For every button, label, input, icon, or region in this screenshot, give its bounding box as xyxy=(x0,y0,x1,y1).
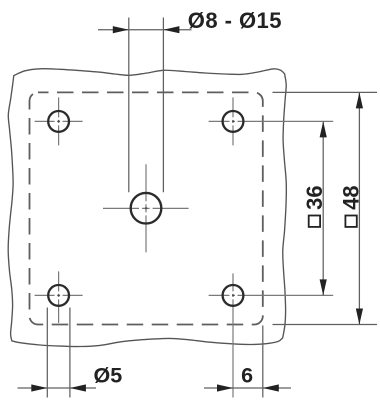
svg-text:36: 36 xyxy=(302,185,327,209)
dim Ø5 extension line left xyxy=(46,308,48,398)
dim 48 arrow bottom xyxy=(356,309,363,325)
hole bottom-right circle xyxy=(223,285,244,306)
center hole middle dot xyxy=(145,207,147,209)
center hole crosshair horizontal xyxy=(103,207,189,209)
dim 48 dimension line xyxy=(358,92,360,324)
panel outline (wavy broken edges) xyxy=(8,69,286,347)
hole top-right middle dot xyxy=(232,120,234,122)
dim 36 square symbol xyxy=(309,216,320,227)
hole top-right crosshair vertical xyxy=(232,97,234,145)
dim 6 arrow left xyxy=(217,384,233,391)
hole bottom-left middle dot xyxy=(58,294,60,296)
dim Ø8-Ø15 dimension line xyxy=(98,29,192,31)
hole bottom-left crosshair horizontal xyxy=(35,294,83,296)
svg-text:48: 48 xyxy=(338,185,363,209)
dim 6 arrow right xyxy=(263,384,279,391)
center hole circle xyxy=(131,193,162,224)
dim Ø5 dimension line xyxy=(18,387,97,389)
hole bottom-right crosshair vertical (extends to dim 6) xyxy=(232,273,234,397)
dim 36 arrow bottom xyxy=(320,279,327,295)
hole bottom-left circle xyxy=(48,285,69,306)
hole bottom-right middle dot xyxy=(232,294,234,296)
dim Ø8-Ø15 extension line right xyxy=(162,18,164,193)
dim 36 arrow top xyxy=(320,121,327,137)
dim Ø8-Ø15 arrow left xyxy=(113,26,129,33)
dim Ø5 arrow left xyxy=(31,384,47,391)
svg-text:6: 6 xyxy=(241,364,253,388)
hole top-left crosshair vertical xyxy=(58,97,60,145)
dim 36 dimension line xyxy=(322,121,324,295)
dim Ø5 extension line right xyxy=(69,308,71,398)
hole top-right circle xyxy=(223,111,244,132)
svg-text:Ø8 - Ø15: Ø8 - Ø15 xyxy=(188,8,282,33)
hole bottom-left crosshair vertical xyxy=(58,271,60,323)
hole bottom-right crosshair horizontal (extends to dim 36) xyxy=(209,294,334,296)
dim 48 square symbol xyxy=(345,216,356,227)
dim 48 extension line top xyxy=(273,91,378,93)
hole top-left middle dot xyxy=(58,120,60,122)
hole top-right crosshair horizontal (extends to dim 36) xyxy=(209,120,334,122)
dim Ø8-Ø15 arrow right xyxy=(163,26,179,33)
dim 48 arrow top xyxy=(356,92,363,108)
dim 6 dimension line xyxy=(204,387,291,389)
svg-text:Ø5: Ø5 xyxy=(94,364,123,388)
dashed module outline square 48x48 xyxy=(30,92,263,324)
dim 6 extension line right (below dashed edge) xyxy=(262,326,264,398)
dim 48 extension line bottom xyxy=(273,324,378,326)
center hole crosshair vertical xyxy=(145,164,147,252)
hole top-left crosshair horizontal xyxy=(35,120,83,122)
hole top-left circle xyxy=(48,111,69,132)
dim Ø8-Ø15 extension line left xyxy=(128,18,130,193)
dim Ø5 arrow right xyxy=(70,384,86,391)
